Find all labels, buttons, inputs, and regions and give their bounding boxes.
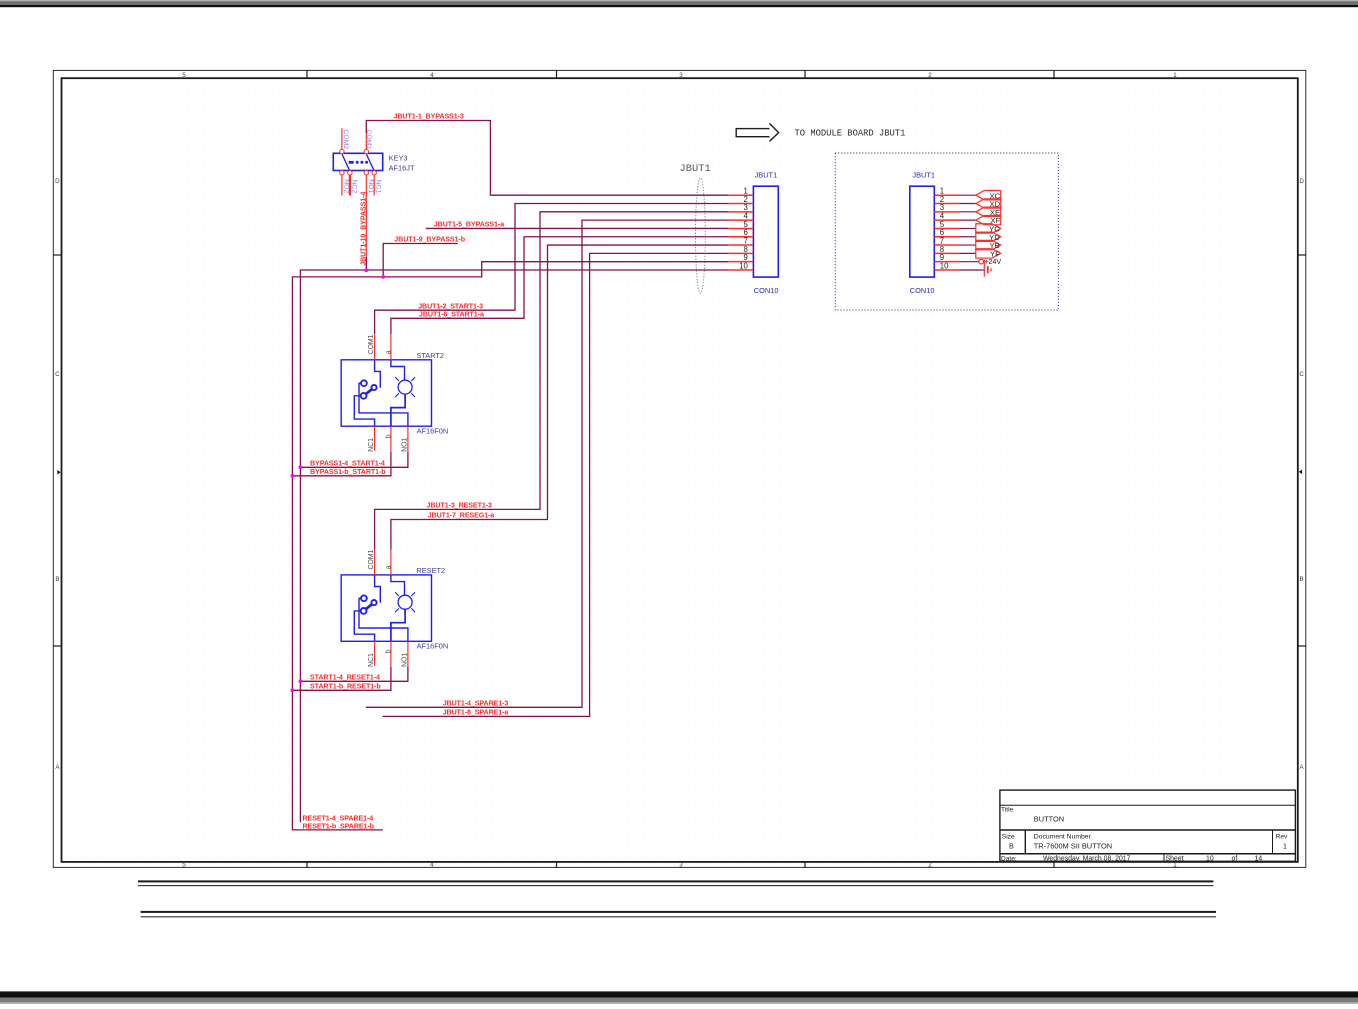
wire JBUT1-5_BYPASS1-a	[426, 227, 728, 229]
power return symbol pin10	[984, 260, 991, 277]
wire JBUT1-2_START1-3	[375, 204, 728, 335]
svg-text:NC1: NC1	[375, 180, 382, 194]
svg-text:JBUT1-1_BYPASS1-3: JBUT1-1_BYPASS1-3	[394, 113, 464, 121]
svg-text:14: 14	[1255, 855, 1263, 862]
svg-text:Date:: Date:	[1001, 855, 1017, 862]
svg-text:1: 1	[1283, 842, 1287, 851]
svg-text:NC1: NC1	[368, 438, 375, 452]
wire RESET2 NO1 to bus	[300, 667, 408, 682]
svg-text:10: 10	[940, 261, 949, 270]
svg-text:C: C	[55, 371, 60, 378]
wire JBUT1-7_RESEG1-a	[391, 245, 728, 550]
svg-text:B: B	[55, 576, 59, 583]
svg-text:JBUT1-4_SPARE1-3: JBUT1-4_SPARE1-3	[443, 699, 509, 707]
svg-text:of: of	[1232, 855, 1238, 862]
svg-text:BUTTON: BUTTON	[1034, 814, 1064, 823]
svg-text:CON10: CON10	[910, 286, 935, 295]
switch KEY3 pin stubs	[342, 128, 374, 195]
wire START2 b to bus	[292, 452, 391, 476]
svg-text:NO1: NO1	[367, 179, 374, 193]
sheet outer border	[53, 70, 1306, 867]
viewer top bar	[0, 0, 1358, 7]
wire JBUT1-3_RESET1-3	[375, 212, 728, 550]
connector JBUT1 right wires	[959, 195, 984, 270]
svg-text:Rev: Rev	[1276, 834, 1288, 841]
svg-text:JBUT1-2_START1-3: JBUT1-2_START1-3	[418, 302, 483, 310]
wire JBUT1-9_BYPASS1-b stub	[383, 244, 458, 277]
svg-text:JBUT1: JBUT1	[912, 170, 935, 179]
svg-text:JBUT1: JBUT1	[755, 170, 778, 179]
svg-text:RESET1-4_SPARE1-4: RESET1-4_SPARE1-4	[303, 814, 374, 822]
svg-text:JBUT1-7_RESEG1-a: JBUT1-7_RESEG1-a	[428, 512, 495, 520]
svg-text:3: 3	[679, 862, 683, 869]
switch KEY3 pin circles	[340, 149, 377, 174]
module dashed enclosure	[835, 153, 1058, 310]
switch KEY3 pin names	[342, 130, 381, 194]
off-page flags YC YD YB YF	[976, 224, 1001, 259]
connector JBUT1 left pin stubs	[728, 195, 753, 270]
svg-text:1: 1	[1173, 862, 1177, 869]
svg-text:RESET1-b_SPARE1-b: RESET1-b_SPARE1-b	[303, 822, 375, 830]
svg-text:AF16F0N: AF16F0N	[417, 642, 449, 651]
svg-text:Title: Title	[1001, 807, 1014, 814]
svg-text:+24V: +24V	[984, 257, 1001, 266]
svg-text:3: 3	[679, 72, 683, 79]
wire START2 NO1 to bus	[300, 452, 408, 468]
svg-text:BYPASS1-b_START1-b: BYPASS1-b_START1-b	[310, 468, 386, 476]
power symbol +24V	[979, 257, 1001, 266]
svg-text:Sheet: Sheet	[1166, 855, 1184, 862]
wire JBUT1-1_BYPASS1-3	[366, 121, 728, 196]
connector JBUT1 right body	[910, 186, 935, 277]
border zone ticks	[53, 70, 1306, 867]
svg-text:AF16F0N: AF16F0N	[417, 427, 449, 436]
svg-text:A: A	[55, 764, 60, 771]
switch KEY3 pin NO1 stub	[365, 175, 367, 257]
svg-text:A: A	[1300, 764, 1305, 771]
sheet inner border	[62, 78, 1298, 862]
svg-text:Document Number: Document Number	[1034, 834, 1092, 841]
svg-text:JBUT1-9_BYPASS1-b: JBUT1-9_BYPASS1-b	[394, 236, 465, 244]
wire RESET2 b to bus	[292, 667, 391, 691]
svg-text:a: a	[385, 565, 392, 569]
wire JBUT1-6_START1-a	[391, 237, 728, 335]
page preview edge 1	[138, 880, 1213, 886]
wire bus b-side (pin9)	[292, 262, 728, 830]
svg-text:D: D	[55, 178, 60, 185]
connector JBUT1 right pin numbers	[940, 187, 949, 271]
off-page flags XC XD XE XF	[976, 191, 1001, 226]
svg-text:JBUT1-5_BYPASS1-a: JBUT1-5_BYPASS1-a	[434, 221, 504, 229]
switch KEY3 body	[333, 153, 382, 170]
svg-text:AF16JT: AF16JT	[389, 164, 415, 173]
pushbutton START2	[341, 334, 448, 452]
svg-text:KEY3: KEY3	[389, 154, 408, 163]
svg-text:5: 5	[182, 72, 186, 79]
pushbutton RESET2	[341, 549, 448, 667]
wire JBUT1-8_SPARE1-a	[383, 253, 728, 716]
svg-text:5: 5	[182, 862, 186, 869]
svg-text:B: B	[1300, 576, 1304, 583]
svg-text:NO1: NO1	[402, 437, 409, 451]
svg-text:TO MODULE BOARD JBUT1: TO MODULE BOARD JBUT1	[795, 128, 906, 138]
off-page arrow symbol	[736, 123, 778, 141]
svg-text:10: 10	[1206, 855, 1214, 862]
switch KEY3 actuator diagonals	[342, 154, 375, 172]
svg-text:COM1: COM1	[368, 549, 375, 569]
svg-text:b: b	[385, 434, 392, 438]
svg-text:JBUT1-10_BYPASS1-4: JBUT1-10_BYPASS1-4	[359, 192, 367, 266]
svg-text:START1-b_RESET1-b: START1-b_RESET1-b	[310, 682, 381, 690]
svg-text:TR-7600M SII BUTTON: TR-7600M SII BUTTON	[1034, 841, 1112, 850]
svg-text:START2: START2	[416, 351, 444, 360]
border center arrow right	[1299, 470, 1302, 475]
svg-text:2: 2	[928, 862, 932, 869]
title block frame	[1000, 790, 1296, 861]
svg-text:JBUT1: JBUT1	[680, 163, 711, 175]
wire JBUT1-4_SPARE1-3	[366, 220, 728, 707]
svg-text:JBUT1-6_START1-a: JBUT1-6_START1-a	[419, 310, 484, 318]
viewer bottom bar	[0, 991, 1358, 1004]
svg-text:CON10: CON10	[754, 286, 779, 295]
svg-text:D: D	[1299, 178, 1304, 185]
svg-text:Size: Size	[1002, 834, 1015, 841]
svg-text:BYPASS1-4_START1-4: BYPASS1-4_START1-4	[310, 459, 385, 467]
switch KEY3 dip dots	[349, 161, 368, 164]
svg-text:NC2: NC2	[350, 180, 357, 194]
connector JBUT1 left body	[753, 186, 778, 277]
wire KEY3 NO1 to bus	[365, 257, 367, 270]
title block text	[1001, 807, 1288, 863]
svg-text:NC1: NC1	[368, 653, 375, 667]
svg-text:JBUT1-3_RESET1-3: JBUT1-3_RESET1-3	[427, 502, 492, 510]
svg-text:C: C	[1299, 371, 1304, 378]
svg-text:NO1: NO1	[402, 653, 409, 667]
cable bundle ellipse JBUT1	[696, 178, 706, 294]
svg-text:2: 2	[928, 72, 932, 79]
junction dots	[291, 268, 386, 692]
svg-text:JBUT1-8_SPARE1-a: JBUT1-8_SPARE1-a	[443, 709, 509, 717]
svg-text:START1-4_RESET1-4: START1-4_RESET1-4	[310, 673, 380, 681]
svg-text:b: b	[385, 649, 392, 653]
page preview edge 2	[141, 911, 1216, 918]
border center arrow left	[57, 470, 60, 475]
svg-text:RESET2: RESET2	[416, 566, 445, 575]
svg-text:COM1: COM1	[368, 334, 375, 354]
connector JBUT1 right pin stubs	[934, 195, 959, 270]
svg-text:NO2: NO2	[342, 179, 349, 193]
svg-text:Wednesday, March 08, 2017: Wednesday, March 08, 2017	[1043, 855, 1131, 862]
wire bus 4-side (pin10)	[300, 270, 728, 822]
svg-text:4: 4	[430, 862, 434, 869]
svg-text:1: 1	[1173, 72, 1177, 79]
connector JBUT1 left pin numbers	[739, 187, 748, 271]
svg-text:B: B	[1009, 841, 1014, 850]
svg-text:COM2: COM2	[342, 130, 349, 150]
svg-text:10: 10	[739, 261, 748, 270]
border zone labels	[55, 72, 1304, 869]
svg-text:a: a	[385, 350, 392, 354]
svg-text:4: 4	[430, 72, 434, 79]
